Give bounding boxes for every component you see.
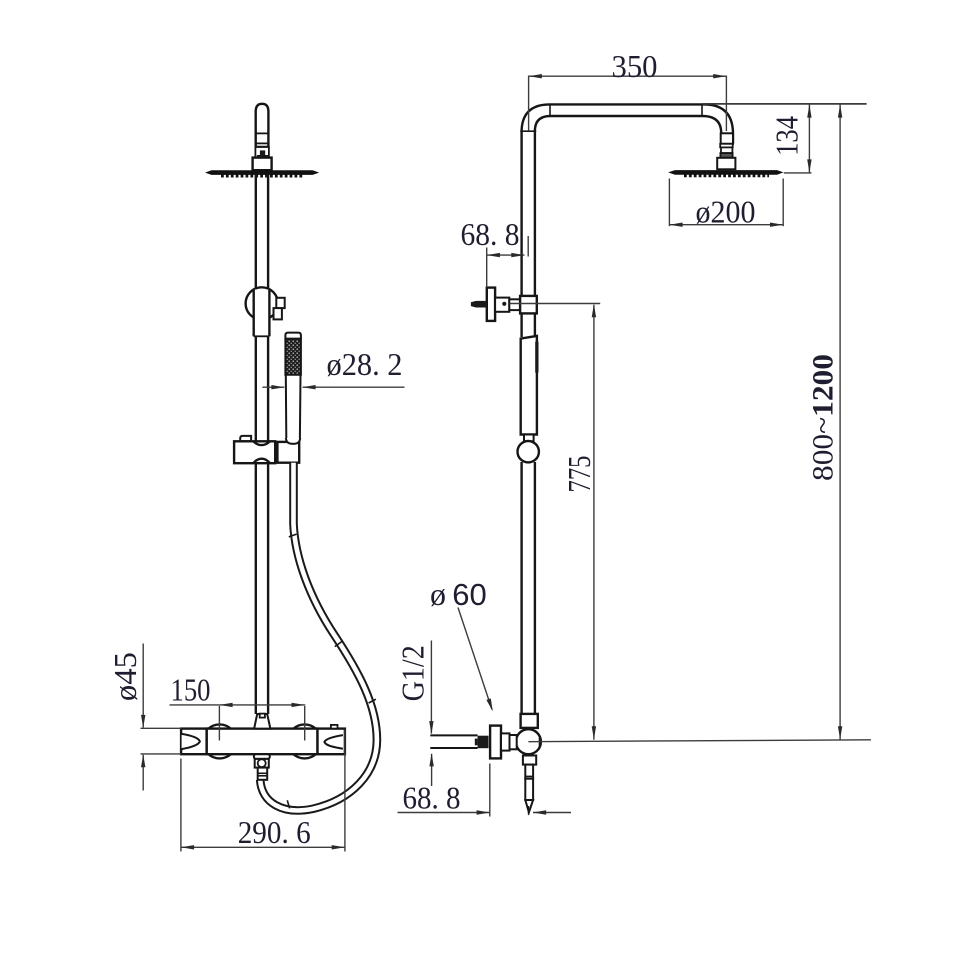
outlet tube [525,779,533,800]
wall flange (side, bottom) [490,726,501,759]
valve centerline [528,740,871,742]
hand shower face edge dark band (side) [535,341,538,373]
ball joint ring [720,144,733,148]
svg-text:G1/2: G1/2 [394,645,430,701]
134 ext bottom [784,172,812,174]
dim o200 line [669,224,783,226]
dim o45 vertical line upper [142,644,144,728]
arch tangent tick top left [549,104,551,117]
top arch outer [522,104,733,143]
dim o28.2 line left seg [262,386,284,388]
svg-text:ø 60: ø 60 [430,576,487,612]
hose joint tick bottom [287,800,289,808]
swivel dark band [257,155,268,158]
ball joint block 1 [721,133,733,144]
dim 350 line [529,75,727,77]
arrow o200 right [770,223,783,227]
dim 290.6 line [181,846,345,848]
mixer handle circle right [288,724,322,758]
arrow o45 up [141,754,145,767]
riser pipe (side) upper segment [520,131,522,296]
outlet tip tick [528,806,530,815]
hose nut under valve [255,759,269,768]
holder knob (side) [518,441,539,462]
dim 134 line [808,104,810,173]
outer sleeve tube over riser [254,290,270,337]
svg-text:68. 8: 68. 8 [461,216,520,252]
riser pipe upper segment (front) [255,174,257,291]
arrow 134 top [807,104,811,117]
rain head nozzle dotted row [221,174,304,177]
hand shower (side profile) [521,336,537,435]
riser pipe (side) short segment below bracket collar [520,313,522,337]
supply pipe bottom line [430,747,477,749]
riser pipe lower segment (front) [255,336,257,714]
outlet rib 1 [525,775,533,777]
G1/2 arrow line lower [431,754,433,786]
dim 150 ext left into knob [218,706,220,741]
arrow 290.6 left [181,845,194,849]
head connector block (side) [717,158,735,170]
outlet tip [525,800,533,812]
hose nut circle [258,759,266,767]
o60 leader line [458,608,492,710]
68.8 top center tick [527,236,529,257]
ball joint block 2 [721,147,732,153]
arrow 350 right [713,74,726,78]
hand shower spray face band (front) [285,339,301,375]
bottom valve collar (side) [521,714,538,728]
right handle cap arc [324,735,343,749]
valve top fitting notch [260,714,265,718]
hose fitting ribbed [258,768,268,780]
350 ext left [528,76,530,131]
top reference line [703,103,867,105]
arrow 800~1200 top [838,104,842,117]
arrow 68.8 top right [511,253,524,257]
valve circle vertical tick [538,736,540,749]
svg-text:775: 775 [561,456,597,493]
holder knob upper [276,298,284,308]
right handle cap [318,729,345,755]
wall bracket stem [495,298,509,312]
arrow 68.8 bottom left-pointing [533,810,546,814]
mixer handle circle left [203,724,237,758]
arrow 290.6 right [332,845,345,849]
wall bracket neck [509,299,520,310]
svg-text:150: 150 [171,672,211,708]
hand shower holder ring (front) [246,287,278,319]
hand shower head cap (front) [285,333,301,339]
wall bracket flange [487,288,495,321]
slider clamp tab [240,436,251,441]
arrow 150 left [219,703,232,707]
connector block B [510,735,517,749]
dim 800~1200 line [839,104,841,740]
svg-text:68. 8: 68. 8 [403,780,461,816]
outlet fitting [525,765,533,779]
arrow o60 leader [486,698,492,711]
arrow 775 bottom [592,726,596,739]
left handle cap [181,729,207,755]
holder knob lower [274,308,282,319]
outlet rib 2 [525,778,533,780]
hose joint tick upper [289,534,297,537]
arrow o28.2 right (points left) [302,385,315,389]
68.8 top ext left [486,248,488,288]
arrow o28.2 left (points right) [271,385,284,389]
350 ext right [725,76,727,132]
arrow 800~1200 bottom [838,726,842,739]
arrow G1/2 up [429,753,433,766]
clamp cradle right block [277,442,299,463]
rib line 1 [258,772,268,774]
rib line 2 [258,775,268,777]
svg-text:290. 6: 290. 6 [238,814,311,850]
68.8 bottom ext [489,764,491,817]
clamp saddle arc bottom [253,459,270,464]
bracket pivot dot [502,302,506,306]
dim 68.8 top line [487,254,525,256]
slider clamp left block [234,441,275,463]
svg-text:800~1200: 800~1200 [806,354,839,481]
o200 ext right [782,179,784,227]
dim 775 line [593,305,595,740]
rain head nozzle dotted row (side) [684,174,769,177]
arrow o200 left [669,223,682,227]
cap joint line 2 [256,142,269,144]
arrow o45 down [141,715,145,728]
top cap of riser (front view) [256,104,269,147]
svg-text:350: 350 [612,48,658,84]
svg-text:134: 134 [769,116,805,156]
arrow 350 left [529,74,542,78]
sleeve bottom edge [254,335,270,337]
hose joint tick middle [335,641,342,646]
shower hose (double line) [260,463,377,811]
hand shower handle (front) [286,375,301,444]
supply nut (dark) [478,736,489,749]
bracket screw body [476,301,486,308]
arrow 150 right [292,703,305,707]
o45 ext bottom [141,753,182,755]
290.6 ext right [344,730,346,852]
riser pipe (side) long lower segment [520,462,522,714]
diverter bump on right cap [331,725,338,729]
bracket collar on pipe [520,296,537,314]
dim 150 ext right into knob [304,706,306,741]
cap joint line 1 [256,132,269,134]
arrow 775 top [592,304,596,317]
svg-text:ø45: ø45 [107,652,143,701]
o45 ext top [141,727,182,729]
valve bottom flare [254,754,270,759]
connector block A [501,733,510,750]
mixer valve body [207,729,318,755]
head connector block (front) [253,158,272,171]
ball joint dark ring [720,153,732,158]
hose joint tick right [369,699,376,703]
svg-text:ø200: ø200 [696,194,756,230]
handle bottom cap in cradle [286,438,300,444]
dim o28.2 line right seg [303,386,405,388]
swivel dark square [260,150,265,155]
dim 68.8 bottom line left [398,812,490,814]
bracket screw tip [471,301,476,308]
arrow G1/2 down [429,721,433,734]
290.6 ext left [180,759,182,852]
arch tangent tick left pipe [520,130,536,132]
arrow 134 bottom [807,159,811,172]
arrow 68.8 bottom right-pointing [477,810,490,814]
clamp divider [275,441,278,463]
left handle cap arc [182,734,200,749]
dim 150 line [170,704,306,706]
supply pipe top line [430,734,477,736]
valve top fitting (bell) [254,714,270,729]
svg-text:ø28. 2: ø28. 2 [327,346,403,382]
rain shower head plate (side) [668,170,783,175]
dim 68.8 bottom line right [533,812,571,814]
outlet block under circle [523,756,536,765]
arch tangent tick top right [701,104,703,117]
clamp saddle arc top [253,441,270,445]
dim o45 vertical line lower [142,755,144,791]
swivel fitting under cap [255,147,269,158]
rain shower head plate (front, edge-on) [205,170,319,175]
holder bracket (side) [524,435,534,442]
arrow 68.8 top left [487,253,500,257]
o200 ext left [668,179,670,227]
supply nut bump [475,739,478,746]
top arch inner [535,116,721,144]
G1/2 arrow line upper [430,641,432,734]
775 ext top [510,303,601,305]
valve body circle (side) [516,729,541,754]
